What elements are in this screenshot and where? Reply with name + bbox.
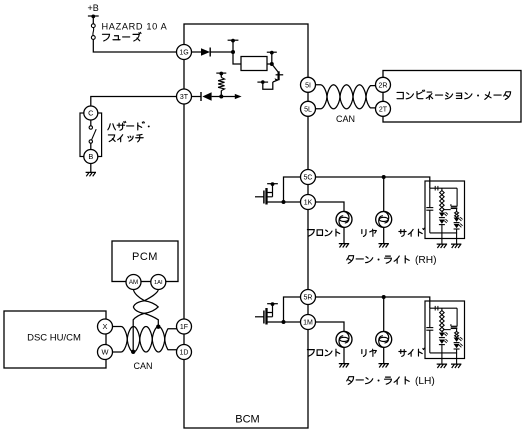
wire front lamp to ground RH [343,227,345,243]
fuse HAZARD 10 A [91,24,95,40]
MOSFET Q_RH [255,182,284,204]
node +B [88,3,99,18]
hazard switch contacts and blade [89,120,96,150]
CAN stub from PCM (wire 1AI) [133,290,158,327]
wire 1-row pin to front lamp LH [316,322,345,331]
wire output to pin 1-row RH [284,201,301,203]
wire 5-row pin to side marker RH [316,177,430,188]
svg-text:2R: 2R [379,82,388,89]
internal tap at Q1 emitter [257,80,268,84]
combination meter box [383,71,521,123]
label CAN (left bus) [134,361,153,371]
resistor + LED chain left LH [439,308,448,353]
wire D1 to node A [210,51,233,53]
ground rear lamp LH [379,364,389,368]
wire rear lamp to ground RH [383,227,385,243]
label turn light LH [347,376,435,387]
wire 1G to diode D1 [192,51,202,53]
wire 3T to diode D2 [192,96,202,98]
ground front lamp RH [339,244,349,248]
pin 1M [301,315,316,330]
label front lamp RH (katakana) [307,229,339,236]
node B junction [270,62,274,66]
ground side marker right RH [451,244,461,248]
wire D2 to signal arrow [212,94,242,99]
label rear lamp RH (katakana) [362,229,376,236]
node output junction LH [282,320,286,324]
svg-text:W: W [102,348,109,357]
wire 5-row pin to side marker LH [316,297,430,308]
wire to rear lamp RH [383,177,385,211]
pin 5R [301,290,316,305]
wire to rear lamp LH [383,297,385,331]
node output junction RH [282,200,286,204]
svg-text:1D: 1D [180,350,189,357]
wire 1-row pin to front lamp RH [316,202,345,211]
pin 2T [376,101,391,116]
node C junction [219,95,223,99]
svg-text:1F: 1F [180,324,188,331]
wire output to pin 5-row LH [284,297,301,322]
svg-text:(LH): (LH) [415,376,435,387]
wire Q1 emitter loop [263,82,273,89]
pin B (hazard switch) [84,150,98,164]
label front lamp LH (katakana) [307,349,339,356]
ground side marker right LH [451,364,461,368]
ground (hazard switch) [86,172,96,176]
wire B to ground [90,164,92,173]
transistor Q1 [272,64,283,82]
pin X [98,319,113,334]
pin 1D [177,345,192,360]
label HAZARD 10 A fuse [102,22,168,41]
svg-text:5R: 5R [304,295,313,302]
wire front lamp to ground LH [343,347,345,363]
wires side marker to grounds RH [442,233,457,244]
rear turn lamp LH [376,331,392,347]
svg-text:B: B [88,152,93,161]
CAN twisted pair to combination meter (wire 5I-2R) [316,85,376,109]
pin 5C [301,170,316,185]
svg-text:1G: 1G [179,50,188,57]
label rear lamp LH (katakana) [362,349,376,356]
label combination meter (katakana) [397,90,511,99]
BCM box [184,24,308,428]
transistor Q side RH [442,188,457,212]
svg-text:C: C [88,109,94,118]
svg-text:2T: 2T [379,106,388,113]
side marker bottom rail LH [430,352,457,354]
pin 1AI [151,275,166,290]
svg-text:3T: 3T [180,94,189,101]
side marker internal top rail RH [430,186,457,191]
DSC HU/CM box [4,311,106,368]
svg-text:AM: AM [129,279,138,286]
pin 5L [301,101,316,116]
pin 2R [376,77,391,92]
label side lamp RH (katakana) [399,228,425,236]
pin 5I [301,77,316,92]
ground rear lamp RH [379,244,389,248]
svg-text:+B: +B [88,3,99,13]
svg-text:(RH): (RH) [415,255,437,266]
internal supply tap above R1 [216,72,226,78]
pin 3T [177,89,192,104]
ground front lamp LH [339,364,349,368]
svg-text:PCM: PCM [132,251,158,263]
side marker unit box LH [425,301,465,359]
wire +B to fuse [92,16,94,24]
label DSC HU/CM [27,333,81,344]
svg-text:5I: 5I [305,82,311,89]
wires side marker to grounds LH [442,353,457,364]
pin AM [126,275,141,290]
pin W [98,345,113,360]
internal supply tap above node B [267,51,277,64]
label CAN (right bus) [336,114,355,124]
wire output to pin 5-row RH [284,177,301,202]
pin 1K [301,195,316,210]
rear turn lamp RH [376,211,392,227]
label hazard switch (katakana) [108,121,150,141]
node rear lamp branch LH [382,295,386,299]
wire node A to relay coil K1 [233,52,241,64]
label side lamp LH (katakana) [399,348,425,356]
transistor Q side LH [442,308,457,332]
side marker unit box RH [425,181,465,239]
wire K1 to node B [267,63,272,65]
ground side marker left RH [437,244,447,248]
front turn lamp LH [336,331,352,347]
diode D1 [201,48,210,57]
label turn light RH [347,255,437,266]
svg-text:BCM: BCM [235,414,259,426]
CAN twisted pair DSC to BCM (wire W-1D) [113,327,177,353]
svg-text:5C: 5C [304,175,313,182]
MOSFET Q_LH [255,302,284,324]
svg-text:X: X [103,322,108,331]
ground side marker left LH [437,364,447,368]
wire fuse to pin 1G [93,39,176,52]
resistor + LED chain right RH [454,212,463,233]
node rear lamp branch RH [382,175,386,179]
svg-text:5L: 5L [304,106,312,113]
pin 1G [177,45,192,60]
wire 3T to hazard switch [91,97,177,107]
wire rear lamp to ground LH [383,347,385,363]
svg-text:1AI: 1AI [154,280,163,286]
svg-text:1K: 1K [304,200,313,207]
CAN twisted pair to combination meter (wire 5L-2T) [316,85,376,109]
svg-text:HAZARD 10 A: HAZARD 10 A [102,22,168,32]
wire output to pin 1-row LH [284,321,301,323]
pin 1F [177,319,192,334]
node CAN junction low [131,350,135,354]
svg-text:CAN: CAN [134,361,153,371]
resistor R1 pull-up [218,77,224,96]
svg-text:DSC HU/CM: DSC HU/CM [27,333,81,344]
node A junction [231,50,235,54]
pin C (hazard switch) [84,106,98,120]
label PCM [132,251,158,263]
hazard switch body [80,113,102,157]
CAN twisted pair DSC to BCM (wire X-1F) [113,327,177,353]
side marker bottom rail RH [430,232,457,234]
side marker internal top rail LH [430,306,457,311]
resistor + LED chain right LH [454,332,463,353]
front turn lamp RH [336,211,352,227]
capacitor C_RH [426,188,433,233]
svg-text:1M: 1M [303,320,313,327]
PCM box [112,241,178,282]
svg-text:CAN: CAN [336,114,355,124]
capacitor C_LH [426,308,433,353]
internal supply tap above node A [228,39,239,52]
label BCM [235,414,259,426]
relay coil K1 (flasher unit) [241,57,267,71]
resistor + LED chain left RH [439,188,448,233]
CAN stub from PCM (wire AM) [133,290,158,352]
diode D2 [201,92,212,101]
node CAN junction high [156,325,160,329]
